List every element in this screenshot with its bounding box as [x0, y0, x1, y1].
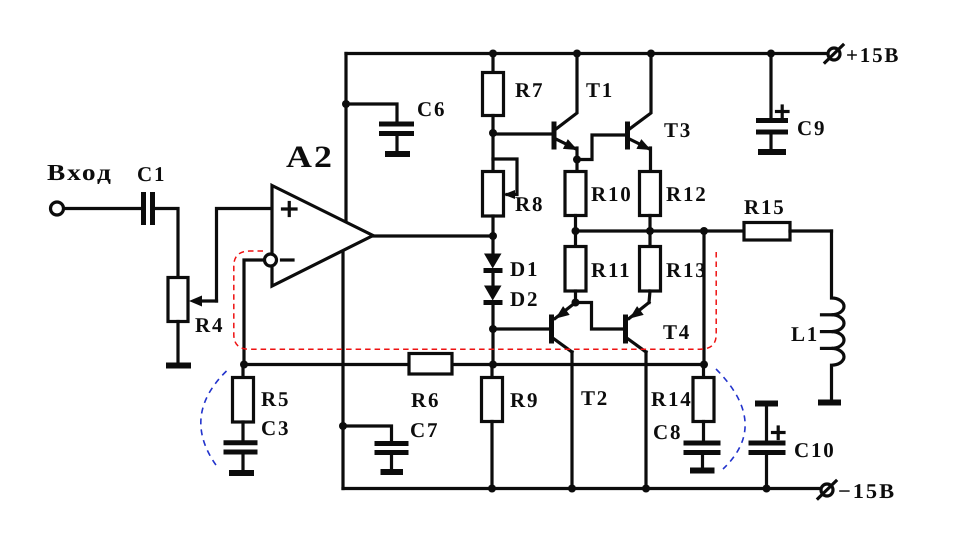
plus mark C9 — [777, 106, 789, 118]
transistor T4 — [626, 303, 650, 353]
input terminal — [51, 202, 64, 215]
svg-text:C8: C8 — [653, 420, 682, 444]
svg-text:R4: R4 — [195, 313, 224, 337]
junction V+ / C6 — [342, 100, 350, 108]
op-amp A2 — [265, 186, 374, 287]
resistor R5 — [233, 365, 254, 441]
inductor L1 — [822, 231, 845, 400]
transistor T1 — [554, 54, 578, 172]
resistor R11 — [565, 231, 586, 303]
transistor T2 — [552, 303, 576, 353]
svg-text:C9: C9 — [797, 116, 826, 140]
wire R4 wiper to op-amp noninverting input — [217, 209, 273, 302]
wire positive supply rail top — [346, 52, 828, 55]
svg-text:L1: L1 — [791, 322, 819, 346]
svg-text:−15В: −15В — [838, 479, 896, 503]
potentiometer R4 — [168, 278, 217, 364]
svg-text:T4: T4 — [663, 320, 691, 344]
wire op-amp V+ pin to rail — [344, 54, 347, 222]
svg-text:R12: R12 — [666, 182, 708, 206]
terminal -15V — [818, 481, 836, 499]
capacitor C8 — [684, 443, 721, 468]
junction output / D1 — [489, 232, 497, 240]
annotation red dashed box — [234, 251, 716, 350]
junction feedback / R9 — [489, 361, 497, 369]
svg-text:R13: R13 — [666, 258, 708, 282]
resistor R12 — [640, 172, 661, 232]
resistor R13 — [640, 231, 661, 303]
wire op-amp V- pin to negative rail — [341, 251, 344, 489]
svg-text:R15: R15 — [744, 195, 786, 219]
resistor R6 — [409, 354, 452, 375]
capacitor C1 — [144, 192, 153, 225]
capacitor C6 — [346, 104, 414, 151]
svg-text:R5: R5 — [261, 387, 290, 411]
svg-text:R9: R9 — [510, 388, 539, 412]
capacitor C3 — [224, 443, 258, 471]
junction T4 / rail — [642, 485, 650, 493]
svg-text:C1: C1 — [137, 162, 166, 186]
diode D2 — [484, 286, 503, 330]
trimmer R8 — [483, 134, 518, 236]
svg-text:R10: R10 — [591, 182, 633, 206]
svg-text:+15В: +15В — [846, 43, 900, 67]
ground R4 — [166, 363, 191, 369]
wire T4 collector to negative rail — [644, 352, 647, 489]
svg-text:А2: А2 — [286, 139, 334, 174]
wire T1 emitter to T3 base — [577, 135, 624, 160]
svg-text:R14: R14 — [651, 387, 693, 411]
junction R9 / rail — [488, 485, 496, 493]
junction R7 / T1 base — [489, 129, 497, 137]
wire C1 to R4 — [155, 209, 178, 278]
svg-text:R11: R11 — [591, 258, 631, 282]
wire feedback node to R14 node — [244, 363, 704, 366]
resistor R7 — [483, 54, 504, 135]
svg-text:T3: T3 — [664, 118, 692, 142]
svg-text:D1: D1 — [510, 257, 539, 281]
capacitor C7 — [343, 426, 409, 470]
junction node to R14 — [700, 227, 708, 235]
svg-text:D2: D2 — [510, 287, 539, 311]
junction T1 emitter — [573, 156, 581, 164]
svg-text:R8: R8 — [515, 192, 544, 216]
ground C8 — [690, 468, 715, 474]
wire input to C1 — [64, 207, 141, 210]
resistor R9 — [482, 365, 503, 489]
wire T2 emitter to T4 base — [576, 303, 624, 330]
junction R14 top — [700, 361, 708, 369]
svg-text:C3: C3 — [261, 416, 290, 440]
junction D2 / T2 base — [489, 325, 497, 333]
junction T1 / rail — [573, 50, 581, 58]
wire T1 base — [493, 132, 552, 135]
ground C3 — [229, 470, 254, 476]
transistor T3 — [628, 54, 652, 172]
svg-text:C6: C6 — [417, 97, 446, 121]
junction T2 / rail — [568, 485, 576, 493]
junction R7 / rail — [489, 50, 497, 58]
plus mark C10 — [773, 427, 785, 439]
ground C9 — [758, 149, 786, 155]
junction R12 / R13 — [646, 227, 654, 235]
wire T2 collector to negative rail — [570, 352, 573, 489]
wire negative supply rail bottom — [343, 487, 820, 490]
ground C7 — [381, 469, 404, 475]
wire op-amp inverting input to feedback node — [244, 260, 263, 365]
svg-text:C7: C7 — [410, 418, 439, 442]
svg-text:C10: C10 — [794, 438, 836, 462]
junction R10 / R11 — [572, 227, 580, 235]
svg-text:T2: T2 — [581, 386, 609, 410]
capacitor C10 — [749, 404, 786, 489]
wire D junction down to feedback — [491, 329, 494, 365]
resistor R14 — [693, 365, 714, 441]
ground L1 — [818, 400, 841, 406]
wire op-amp output — [373, 234, 493, 237]
wire D2 junction to T2 base — [493, 327, 549, 330]
wire output node down to R14 — [702, 231, 705, 365]
annotation blue dashed arc left — [201, 371, 227, 469]
terminal +15V — [825, 45, 843, 63]
resistor R10 — [565, 172, 586, 232]
junction R11 / T2 emitter / T4 base — [572, 299, 580, 307]
wire output stage node — [576, 229, 745, 232]
annotation blue dashed arc right — [716, 369, 745, 469]
svg-text:T1: T1 — [586, 78, 614, 102]
svg-text:R6: R6 — [411, 388, 440, 412]
resistor R15 — [744, 223, 832, 241]
junction T3 / rail — [647, 50, 655, 58]
ground C6 — [385, 151, 410, 157]
junction C9 / rail — [767, 50, 775, 58]
junction V- / C7 — [339, 422, 347, 430]
diode D1 — [484, 236, 503, 286]
svg-text:R7: R7 — [515, 78, 544, 102]
capacitor C9 — [756, 54, 788, 150]
junction feedback node — [240, 361, 248, 369]
junction C10 / rail — [763, 485, 771, 493]
svg-text:Вход: Вход — [47, 160, 113, 185]
